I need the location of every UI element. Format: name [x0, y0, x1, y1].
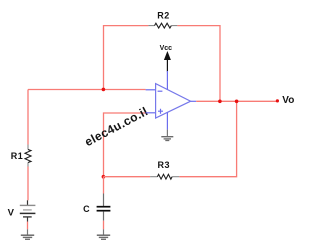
- output terminal dot: [276, 99, 279, 102]
- wire: capacitor branch: [103, 177, 105, 194]
- capacitor C: [97, 207, 111, 211]
- op-amp minus sign: [158, 90, 163, 92]
- wire: output: [191, 100, 197, 102]
- svg-text:V: V: [8, 207, 15, 218]
- op-amp plus sign: [158, 109, 163, 114]
- resistor R2: [148, 23, 177, 28]
- wire: battery to ground: [27, 222, 29, 230]
- node A junction dot: [102, 88, 106, 92]
- op-amp ground pin: [166, 112, 168, 129]
- svg-text:R3: R3: [158, 160, 171, 170]
- battery source V: [20, 200, 36, 221]
- Vcc arrow: [164, 51, 171, 60]
- wire: capacitor to ground: [103, 211, 105, 220]
- ground (op-amp): [161, 137, 173, 141]
- svg-text:Vo: Vo: [282, 95, 294, 106]
- wire: R2 right to output node: [177, 26, 220, 102]
- wire: node B to R3: [104, 176, 151, 178]
- wire: minus input run: [28, 89, 146, 91]
- svg-text:R1: R1: [11, 151, 24, 161]
- op-amp U1 triangle: [156, 84, 191, 118]
- svg-text:C: C: [83, 204, 90, 214]
- ground (capacitor): [97, 235, 110, 239]
- junction dot (R2 feedback): [218, 100, 222, 104]
- ground (battery): [21, 235, 34, 239]
- wire: R1 branch down: [27, 90, 29, 145]
- wire top: node A up and across to R2: [104, 26, 149, 90]
- wire: plus input run: [104, 113, 146, 177]
- node B junction dot: [102, 175, 106, 179]
- svg-text:Vcc: Vcc: [160, 45, 173, 52]
- op-amp U1 input pin stubs: [146, 89, 156, 91]
- svg-text:R2: R2: [157, 11, 170, 21]
- junction dot (R3 branch): [235, 100, 239, 104]
- op-amp power pin: [166, 71, 168, 90]
- wire: R3 to output node: [179, 101, 236, 176]
- wire: R1 to battery: [27, 167, 29, 201]
- resistor R1: [25, 145, 31, 167]
- resistor R3: [150, 174, 179, 179]
